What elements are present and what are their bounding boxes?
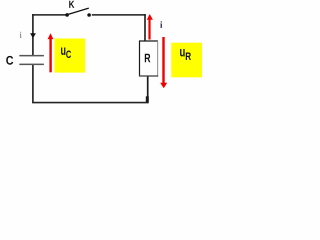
wire top horizontal left segment [32,14,66,16]
capacitor label C [6,56,13,65]
switch label K [69,1,74,8]
label uR highlight box [171,43,202,78]
junction blob bottom-right [146,96,149,102]
wire right vertical upper (to resistor top) [144,14,146,41]
current label i (right) [160,21,162,28]
wire top horizontal right segment [92,14,146,16]
switch K: right contact dot [87,13,91,17]
current arrow i (red, up) at resistor top [147,14,153,40]
wire bottom horizontal rail [32,102,149,104]
current label i (left) [20,32,22,38]
voltage label uR [180,44,192,63]
wire bottom-left vertical (capacitor to bottom rail) [32,65,34,103]
label uC highlight box [54,39,85,73]
resistor R box [139,41,158,77]
switch K: blade (open) [67,8,89,15]
current arrow (black, down) on left wire [30,33,36,38]
switch K: left contact dot [65,13,69,17]
svg-text:C: C [66,49,71,61]
wire top-left vertical [32,14,34,55]
voltage arrow uC (red, up) [48,33,54,72]
voltage arrow uR (red, down) [160,37,167,88]
resistor label R [145,54,151,63]
voltage label uC [61,42,72,61]
svg-text:R: R [185,51,191,63]
capacitor C bottom plate [19,64,44,66]
capacitor C top plate [19,55,44,57]
wire right vertical lower (resistor bottom to rail) [147,76,149,103]
